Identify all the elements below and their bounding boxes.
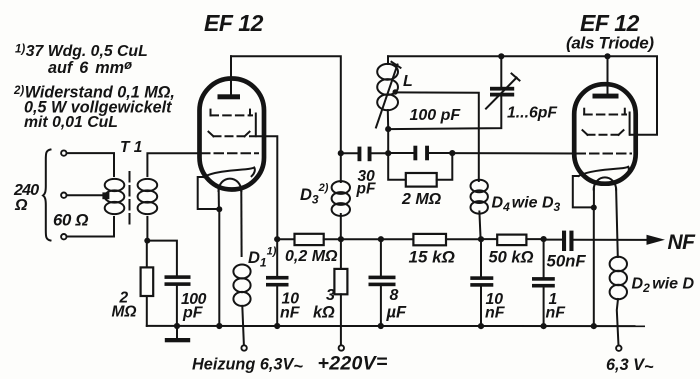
note 1 text [15, 43, 148, 77]
svg-text:D4wie D3: D4wie D3 [492, 195, 561, 215]
svg-text:L: L [403, 73, 413, 90]
grid g2 (dashed with hooks) [583, 130, 624, 135]
trimmer capacitor 1...6pF [486, 56, 520, 108]
envelope [200, 79, 265, 190]
wire heater 2 right leg to D2 [616, 189, 618, 258]
wire NF output with arrow [574, 235, 666, 245]
svg-text:Ω: Ω [14, 197, 28, 214]
svg-text:nF: nF [280, 305, 301, 322]
wire primary top [67, 153, 115, 176]
grid g1 (dashed) [201, 152, 258, 154]
label 1 nF [546, 291, 567, 322]
wire tank bottom to grid node [387, 129, 389, 153]
grid g1 (dashed) [577, 153, 632, 155]
resistor 2 Mohm (grid leak of tube 1), vertical [141, 241, 154, 326]
svg-text:15 kΩ: 15 kΩ [409, 248, 455, 267]
grid g3 (dashed with end ticks) [584, 109, 629, 135]
svg-text:MΩ: MΩ [112, 304, 137, 321]
capacitor 1 nF [532, 239, 555, 329]
terminal top (240 ohm input) [61, 150, 66, 155]
svg-text:8: 8 [390, 287, 399, 304]
label D1 footnote area: wire rail D3 to 8uF [341, 238, 381, 240]
capacitor grid condenser [388, 146, 452, 161]
wire primary bottom [67, 217, 115, 237]
svg-text:50 kΩ: 50 kΩ [489, 249, 534, 267]
svg-text:auf 6 mmø: auf 6 mmø [48, 57, 132, 77]
svg-text:EF 12: EF 12 [204, 10, 264, 36]
junction 100pF / ground [174, 323, 180, 329]
brace for transformer input taps [43, 150, 51, 241]
primary winding loops [105, 179, 125, 214]
ground symbol [165, 326, 190, 342]
choke D1 [233, 265, 250, 306]
svg-text:EF 12: EF 12 [580, 10, 640, 36]
svg-text:0,2 MΩ: 0,2 MΩ [285, 248, 338, 265]
tube V1 EF12 [200, 56, 265, 191]
choke D4 [471, 180, 488, 214]
svg-text:NF: NF [668, 231, 697, 254]
secondary winding loops [138, 179, 158, 214]
terminal Heizung [241, 345, 246, 350]
capacitor 10 nF (cathode-side bypass) [266, 239, 289, 329]
svg-text:kΩ: kΩ [313, 304, 335, 322]
label 30 pF [356, 168, 376, 198]
envelope [574, 84, 636, 184]
node grid circuit right [449, 150, 455, 156]
svg-text:T 1: T 1 [120, 139, 142, 156]
resistor 0,2 Mohm (screen feed) [277, 234, 341, 245]
wire cathode 1 to ground [198, 177, 223, 329]
wire D1 to heater terminal (crosses ground bus) [242, 306, 244, 345]
wire grid node to tube 2 g1 [452, 152, 577, 154]
anode bar [218, 94, 241, 99]
cathode [579, 167, 629, 176]
wire D2 to heater terminal (crosses ground bus) [617, 299, 619, 346]
anode lead up [230, 56, 232, 94]
core (dashed bar) [129, 172, 131, 224]
svg-text:pF: pF [182, 305, 204, 322]
anode bar [593, 94, 619, 99]
variable arrow through L [376, 65, 398, 128]
svg-text:2 MΩ: 2 MΩ [401, 191, 442, 208]
tube V2 EF12 (als Triode) [574, 56, 636, 189]
node grid circuit left [385, 150, 391, 156]
resistor 2 Mohm (grid leak tube 2) in bypass loop [388, 153, 452, 187]
junction 8uF [378, 236, 384, 242]
wire cathode 2 to ground [573, 176, 597, 329]
wire heater 1 right leg to D1 [240, 190, 242, 256]
label 3 kohm [313, 287, 335, 322]
capacitor 50 nF (output coupling) [544, 231, 574, 251]
junction secondary bottom [144, 238, 150, 244]
junction 1nF / 50nF [541, 236, 547, 242]
wire tube1 g2/g3 to screen feed [250, 136, 280, 242]
node L tap [393, 89, 398, 94]
capacitor 8 uF (electrolytic bypass) [369, 239, 396, 329]
resistor 3 kohm (dropping, vertical) with +220V feed [334, 239, 347, 345]
wire tube1 anode to top, down to D3 [231, 56, 341, 182]
resistor 15 kohm [381, 234, 481, 245]
svg-text:3: 3 [326, 287, 335, 304]
svg-text:pF: pF [356, 181, 376, 198]
wire heater 1 left leg [218, 190, 220, 208]
junction trimmer top [498, 53, 504, 59]
svg-text:D2wie D: D2wie D [632, 276, 695, 296]
svg-text:1...6pF: 1...6pF [507, 105, 557, 122]
svg-text:6,3 V~: 6,3 V~ [606, 356, 654, 376]
wire D3 bottom to rail [338, 214, 344, 242]
label 100 pF [181, 291, 207, 322]
capacitor 30 pF (coupling) [341, 147, 388, 162]
svg-text:Heizung 6,3V~: Heizung 6,3V~ [192, 356, 303, 376]
svg-text:mit 0,01 CuL: mit 0,01 CuL [24, 114, 118, 131]
label 8 uF [386, 287, 408, 322]
label 10 nF [485, 291, 506, 322]
node L bottom [385, 126, 391, 132]
wire L tap to D4 (anode feed) [395, 92, 479, 181]
terminal 6,3V [616, 346, 621, 351]
label 10 nF [280, 291, 301, 322]
choke D2 [610, 257, 627, 299]
svg-text:100 pF: 100 pF [410, 107, 462, 124]
heater [219, 179, 242, 191]
note 2 text [13, 84, 175, 132]
choke D3 [332, 181, 350, 216]
terminal bottom [61, 234, 66, 239]
svg-text:(als Triode): (als Triode) [566, 34, 654, 53]
capacitor 10 nF (second bypass) [470, 239, 493, 329]
transformer T1 [67, 153, 200, 244]
grid g3 (dashed with end ticks) [211, 110, 256, 137]
label 2 Mohm [112, 290, 137, 321]
capacitor 100 pF (input bypass) [147, 241, 190, 326]
grid g2 (dashed with hooks) [209, 132, 250, 137]
wire D4 to rail [478, 212, 484, 243]
svg-text:+220V=: +220V= [318, 351, 388, 375]
svg-text:nF: nF [485, 305, 506, 322]
heater [594, 177, 616, 189]
svg-text:50nF: 50nF [547, 252, 587, 271]
svg-text:nF: nF [546, 305, 567, 322]
wire L bottom to trimmer bottom [388, 96, 501, 129]
cathode [204, 168, 255, 178]
wire secondary bottom [146, 217, 148, 241]
terminal middle (60 ohm tap) [61, 193, 66, 198]
inductor L (tuning coil, variable) [376, 56, 401, 129]
terminal +220V [339, 345, 344, 350]
svg-text:µF: µF [386, 304, 408, 322]
node anode1 / 30pF tap [338, 150, 344, 156]
junction tube2 anode top [604, 53, 610, 59]
ground bus wire [147, 325, 644, 327]
resistor 50 kohm [481, 235, 544, 246]
wire heater 2 left leg [593, 189, 595, 207]
wire 60 ohm tap [67, 194, 104, 196]
anode lead up [607, 56, 609, 94]
wire secondary top to tube 1 grid [147, 153, 199, 176]
tap junction square [102, 192, 109, 199]
label 240 ohm [13, 182, 39, 214]
wire top tank rail (L top to tube2 anode and g2 tie) [388, 56, 657, 134]
svg-text:60 Ω: 60 Ω [53, 211, 88, 230]
